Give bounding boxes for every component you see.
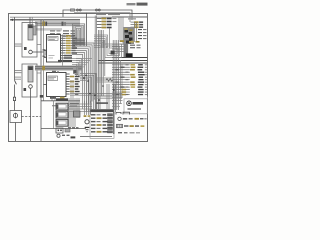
- wire color row Y3: [120, 40, 124, 42]
- drop wires bundle: [68, 101, 70, 118]
- relay K1 coil: [28, 25, 33, 41]
- U1 pin row 7: [61, 50, 66, 52]
- contact square K2: [24, 88, 27, 91]
- fuse F1: [13, 97, 15, 100]
- relay box R3: [56, 119, 68, 126]
- U1 lower pin rows: [61, 55, 69, 57]
- motor M1: [85, 120, 89, 124]
- pin stubs K2: [37, 66, 41, 68]
- right pin row 3: [112, 69, 130, 71]
- U1 pin row 4: [61, 42, 66, 44]
- wire V3 relay return: [30, 97, 32, 141]
- junction dots: [83, 77, 85, 79]
- U2 pin row 7: [66, 88, 70, 90]
- wire V4: [40, 20, 42, 141]
- U2 label box: [48, 76, 58, 81]
- dash-dot wire battery feed: [22, 116, 42, 118]
- wire color label Y2 on B2: [42, 66, 45, 70]
- wire into stack: [52, 105, 56, 107]
- U2 pin row 6: [66, 86, 70, 88]
- bus line right: [112, 16, 147, 18]
- enclosure K1 main relay: [22, 23, 37, 58]
- right pin row 2: [112, 66, 130, 68]
- harness band B1: [35, 21, 80, 26]
- connector CN1 row 2: [97, 21, 102, 23]
- arrow on W4: [10, 19, 13, 21]
- wire V9: [109, 28, 111, 48]
- wire W3 bus: [10, 16, 147, 18]
- U2 pin row 5: [66, 83, 70, 85]
- right harness verticals: [112, 40, 114, 110]
- U1 pin row 2: [61, 37, 66, 39]
- right pin row 11: [112, 89, 130, 91]
- mesh dark segs: [96, 102, 108, 104]
- CN3 row 4: [91, 124, 96, 125]
- relay box R1: [56, 103, 68, 110]
- connector CN2 row 2: [131, 24, 135, 26]
- mesh verticals right: [106, 84, 108, 112]
- switch S1: [15, 80, 17, 84]
- wire K1 to U1: [32, 51, 46, 53]
- U1 label box: [48, 37, 58, 41]
- right lower crossing wires: [112, 97, 124, 99]
- pin stub K1a: [37, 44, 41, 46]
- SP1 lower column: [124, 44, 129, 58]
- relay box R2: [56, 111, 68, 118]
- connector CN2 row 3: [131, 26, 135, 28]
- text label T3: [15, 77, 21, 78]
- connector CN1 row 3: [97, 24, 102, 26]
- right pin row 9: [112, 84, 130, 86]
- ground G1: [85, 127, 90, 128]
- wire K2 down: [30, 88, 32, 97]
- U1 left pins: [44, 50, 47, 52]
- U2 pin row 8: [66, 91, 70, 93]
- connector block CB1: [74, 111, 81, 117]
- enclosure K2 pump relay: [22, 64, 37, 97]
- table CN3 top bar: [90, 109, 114, 112]
- wire V5: [43, 20, 45, 101]
- label dashes L2: [62, 135, 65, 136]
- text label T1: [15, 44, 22, 45]
- U2 pin row 4: [66, 81, 70, 83]
- wire color label Y1 on B1: [42, 21, 45, 26]
- connector CN1 row 4: [97, 27, 102, 29]
- right pin row 13: [112, 94, 130, 96]
- wires into SP1: [112, 43, 124, 45]
- nested corners N5: [72, 59, 82, 77]
- battery B1 box: [10, 111, 22, 123]
- mesh horizontals upper: [96, 77, 113, 79]
- legend row 3: [118, 132, 122, 133]
- stack right wires: [68, 98, 70, 127]
- right pin row 4: [112, 71, 130, 73]
- mesh horizontals: [70, 93, 122, 95]
- CN3 row 5: [91, 128, 96, 129]
- U1 pin row 8: [61, 52, 66, 54]
- logo subtext: [128, 108, 142, 110]
- right pin row 7: [112, 79, 130, 81]
- corner fan N4: [80, 74, 96, 113]
- U2 pin row 1: [66, 73, 70, 75]
- right pin row 12: [112, 91, 130, 93]
- mesh verticals left: [70, 80, 72, 112]
- CN3 right border: [113, 112, 115, 134]
- text label T2: [15, 70, 22, 71]
- wire risers right: [118, 17, 120, 42]
- nested loop N6: [105, 44, 122, 58]
- IC U2: [47, 73, 67, 97]
- scan density wash over loop block: [72, 24, 86, 45]
- right pin row 8: [112, 81, 130, 83]
- corner fan N3b: [76, 58, 93, 60]
- resistor RZ1: [106, 79, 113, 82]
- U2 bottom pins: [50, 97, 56, 99]
- terminal circle K2: [29, 85, 33, 89]
- long wires right: [112, 57, 147, 59]
- connector CN1 row 1: [97, 18, 102, 20]
- diode box D1: [56, 128, 63, 133]
- wire W4 main bus: [10, 19, 80, 21]
- wire loop bundle N1: [73, 24, 85, 46]
- scan density wash over center mesh: [76, 40, 105, 76]
- IC U1 ECU: [47, 35, 61, 63]
- wire drop into K1: [29, 17, 31, 24]
- corner fan N2: [94, 35, 108, 48]
- right pin row 6: [112, 76, 130, 78]
- junction blob: [40, 95, 43, 98]
- title text block: [127, 3, 136, 5]
- relay K1 contact: [33, 26, 36, 35]
- lamp LP1: [57, 134, 60, 137]
- drop wires to lamp: [84, 101, 86, 115]
- CN3 row 3: [91, 121, 96, 122]
- U2 top notch: [52, 71, 56, 73]
- battery B1 terminal: [13, 113, 17, 117]
- CN3 row 2: [91, 118, 96, 119]
- connector P2 on W1: [96, 9, 98, 11]
- harness band B1b: [35, 28, 62, 31]
- corner fan N3: [72, 43, 94, 100]
- wire H2: [41, 128, 86, 130]
- logo box clear: [123, 97, 148, 114]
- relay K2 coil: [28, 66, 33, 82]
- connector P1 on W1: [77, 9, 79, 11]
- U1 pin row 3: [61, 40, 66, 42]
- U2 pin row 9: [66, 93, 70, 95]
- wire V7: [86, 13, 88, 46]
- text label T4: [128, 18, 136, 19]
- wire H1: [41, 100, 80, 102]
- U2 left pin: [44, 84, 47, 86]
- logo text: [133, 102, 144, 105]
- legend row 2: [117, 124, 123, 127]
- stub rows 2: [130, 45, 135, 46]
- CN3 row 1: [91, 114, 96, 115]
- legend row 1: [118, 117, 121, 120]
- table header text: [96, 14, 106, 15]
- brace BR1: [116, 112, 121, 114]
- fuse F2 on W1: [71, 9, 75, 11]
- U1 bottom bar: [58, 60, 72, 62]
- splice mass SP1: [124, 27, 135, 44]
- center vertical bundle: [94, 46, 96, 112]
- U1 pin row 5: [61, 45, 66, 47]
- right pin row 10: [112, 86, 130, 88]
- wire W1 top feed: [63, 10, 132, 20]
- U2 pin row 3: [66, 78, 70, 80]
- terminal circle K1: [29, 50, 33, 54]
- N1 label rows: [73, 38, 85, 41]
- right pin row 5: [112, 74, 130, 76]
- splice ticks on B1: [62, 22, 64, 26]
- U2 pin row 2: [66, 76, 70, 78]
- table CN3 border: [90, 109, 114, 138]
- scan density wash over lower mesh: [76, 76, 116, 114]
- wire V8 pair: [94, 16, 96, 47]
- wire battery to ground bus: [15, 123, 17, 142]
- wire V6: [62, 35, 64, 66]
- right pin row 1: [112, 64, 130, 66]
- wire H3: [80, 136, 112, 138]
- U1 pin row 1: [61, 35, 66, 37]
- connector CN2 row 1: [131, 21, 135, 23]
- label dashes L3: [68, 127, 71, 128]
- harness band B2: [35, 66, 82, 71]
- stack top bar: [56, 98, 68, 101]
- wire W2: [74, 13, 130, 22]
- right stub rows: [138, 29, 142, 30]
- U1 pin row 6: [61, 47, 66, 49]
- wire V1 ignition feed: [14, 17, 16, 80]
- logo circle D: [127, 101, 132, 106]
- CN3 row 6: [91, 131, 96, 132]
- splice blob SP2: [73, 68, 78, 74]
- border frame: [9, 14, 148, 142]
- contact square K1: [24, 47, 27, 50]
- mesh crossing rows: [68, 103, 92, 105]
- component D2: [65, 129, 70, 133]
- U1 inner marks: [49, 54, 55, 57]
- label dashes L1: [50, 30, 55, 31]
- wire color labels Y4: [84, 115, 87, 117]
